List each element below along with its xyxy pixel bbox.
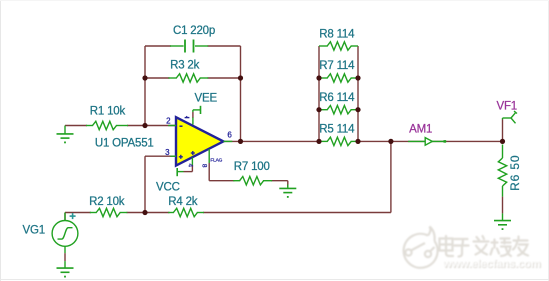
svg-text:R8 114: R8 114 [319,28,355,40]
svg-text:U1 OPA551: U1 OPA551 [95,137,154,149]
svg-text:R6 50: R6 50 [508,155,522,191]
svg-text:6: 6 [227,130,232,139]
svg-text:2: 2 [166,116,171,125]
svg-text:4: 4 [187,163,194,167]
svg-text:VF1: VF1 [497,100,518,112]
svg-text:8: 8 [200,164,207,168]
svg-text:3: 3 [165,148,170,157]
svg-text:R5 114: R5 114 [319,124,355,136]
svg-text:R3 2k: R3 2k [170,60,199,72]
svg-text:VG1: VG1 [23,225,45,237]
svg-text:C1 220p: C1 220p [173,25,215,37]
svg-text:R7 114: R7 114 [319,60,355,72]
svg-text:R6 114: R6 114 [319,92,355,104]
svg-text:VEE: VEE [195,93,218,105]
svg-text:FLAG: FLAG [210,157,222,163]
svg-text:AM1: AM1 [409,123,432,135]
svg-text:R7 100: R7 100 [234,161,270,173]
svg-text:R2 10k: R2 10k [89,196,125,208]
svg-text:R1 10k: R1 10k [90,106,126,118]
svg-text:R4 2k: R4 2k [168,196,197,208]
svg-text:VCC: VCC [156,182,180,194]
svg-text:www.elecfans.com: www.elecfans.com [442,258,541,270]
